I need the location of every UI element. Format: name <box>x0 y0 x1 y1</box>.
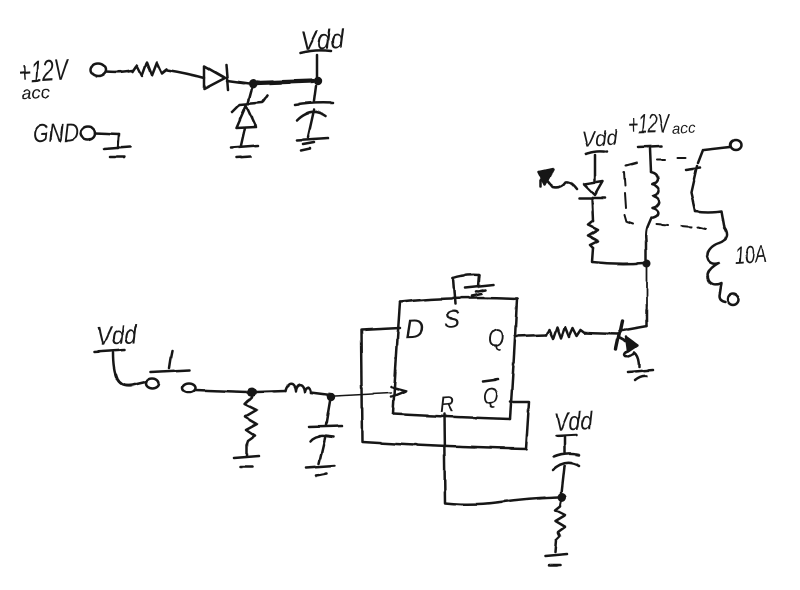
relay coil L1 <box>646 172 660 260</box>
wire <box>592 248 644 264</box>
ground <box>231 146 258 158</box>
resistor R2 <box>245 397 257 444</box>
power Vdd (cap C3) <box>553 405 594 453</box>
svg-text:Vdd: Vdd <box>95 319 139 351</box>
ground <box>545 554 567 565</box>
resistor R3 <box>546 327 585 339</box>
capacitor C2 <box>309 401 342 464</box>
LED LED1 <box>539 169 605 198</box>
pin label Qbar <box>482 379 498 410</box>
ground <box>234 456 259 467</box>
svg-text:10A: 10A <box>734 241 767 270</box>
feedback wire D to Qbar <box>361 328 529 449</box>
label +12V acc (relay) <box>628 108 696 139</box>
junction node D <box>558 493 567 502</box>
wire <box>106 71 134 72</box>
terminal fuse output <box>728 294 739 305</box>
power Vdd (switch) <box>94 319 145 386</box>
svg-text:Vdd: Vdd <box>553 405 594 437</box>
wire <box>555 540 556 552</box>
svg-text:Vdd: Vdd <box>581 125 618 152</box>
resistor R1 <box>133 62 167 76</box>
fuse F1 <box>695 211 727 302</box>
switch SW2 <box>146 351 196 393</box>
diode D1 <box>204 65 249 90</box>
wire Q output <box>515 335 546 336</box>
label +12V acc input <box>17 53 71 104</box>
capacitor C3 <box>552 454 579 493</box>
switch SW1 relay contact <box>686 140 742 211</box>
resistor R6 <box>555 501 565 540</box>
ground <box>104 134 130 157</box>
junction node A <box>249 80 258 89</box>
wire <box>95 133 119 134</box>
power Vdd (top) <box>299 24 345 78</box>
wire <box>592 198 593 221</box>
wire <box>246 444 249 456</box>
wire <box>257 81 313 83</box>
svg-text:acc: acc <box>20 82 50 103</box>
svg-text:+12V: +12V <box>628 108 672 139</box>
svg-text:R: R <box>438 391 455 417</box>
wire <box>646 268 648 324</box>
svg-text:acc: acc <box>672 120 696 138</box>
junction node E <box>248 388 257 397</box>
flip-flop U1 box <box>393 298 517 419</box>
svg-text:GND: GND <box>32 117 78 149</box>
svg-text:S: S <box>443 305 462 334</box>
ground <box>628 370 653 380</box>
svg-text:Q: Q <box>487 325 504 353</box>
resistor R4 <box>588 221 598 248</box>
terminal GND <box>80 127 95 140</box>
power bar +12V acc <box>638 146 661 172</box>
wire <box>195 390 248 392</box>
svg-text:D: D <box>404 314 424 345</box>
power Vdd (LED) <box>581 125 618 181</box>
svg-text:Q: Q <box>482 383 498 411</box>
transistor Q1 <box>616 310 647 367</box>
zener Z1 <box>232 88 268 146</box>
S ground flag <box>453 275 494 304</box>
wire R pin <box>444 414 558 504</box>
ground <box>297 138 329 150</box>
junction node B <box>314 77 322 85</box>
terminal +12V acc <box>91 64 106 76</box>
inductor L2 <box>286 384 311 393</box>
wire <box>256 391 286 392</box>
wire <box>311 393 327 395</box>
wire <box>167 70 204 78</box>
capacitor C1 <box>295 86 333 137</box>
relay K1 dashed enclosure <box>624 158 706 229</box>
junction node C <box>643 260 651 268</box>
ground <box>306 466 335 476</box>
wire <box>585 333 618 334</box>
clock wire with arrow <box>335 387 406 397</box>
junction node F <box>327 393 335 401</box>
